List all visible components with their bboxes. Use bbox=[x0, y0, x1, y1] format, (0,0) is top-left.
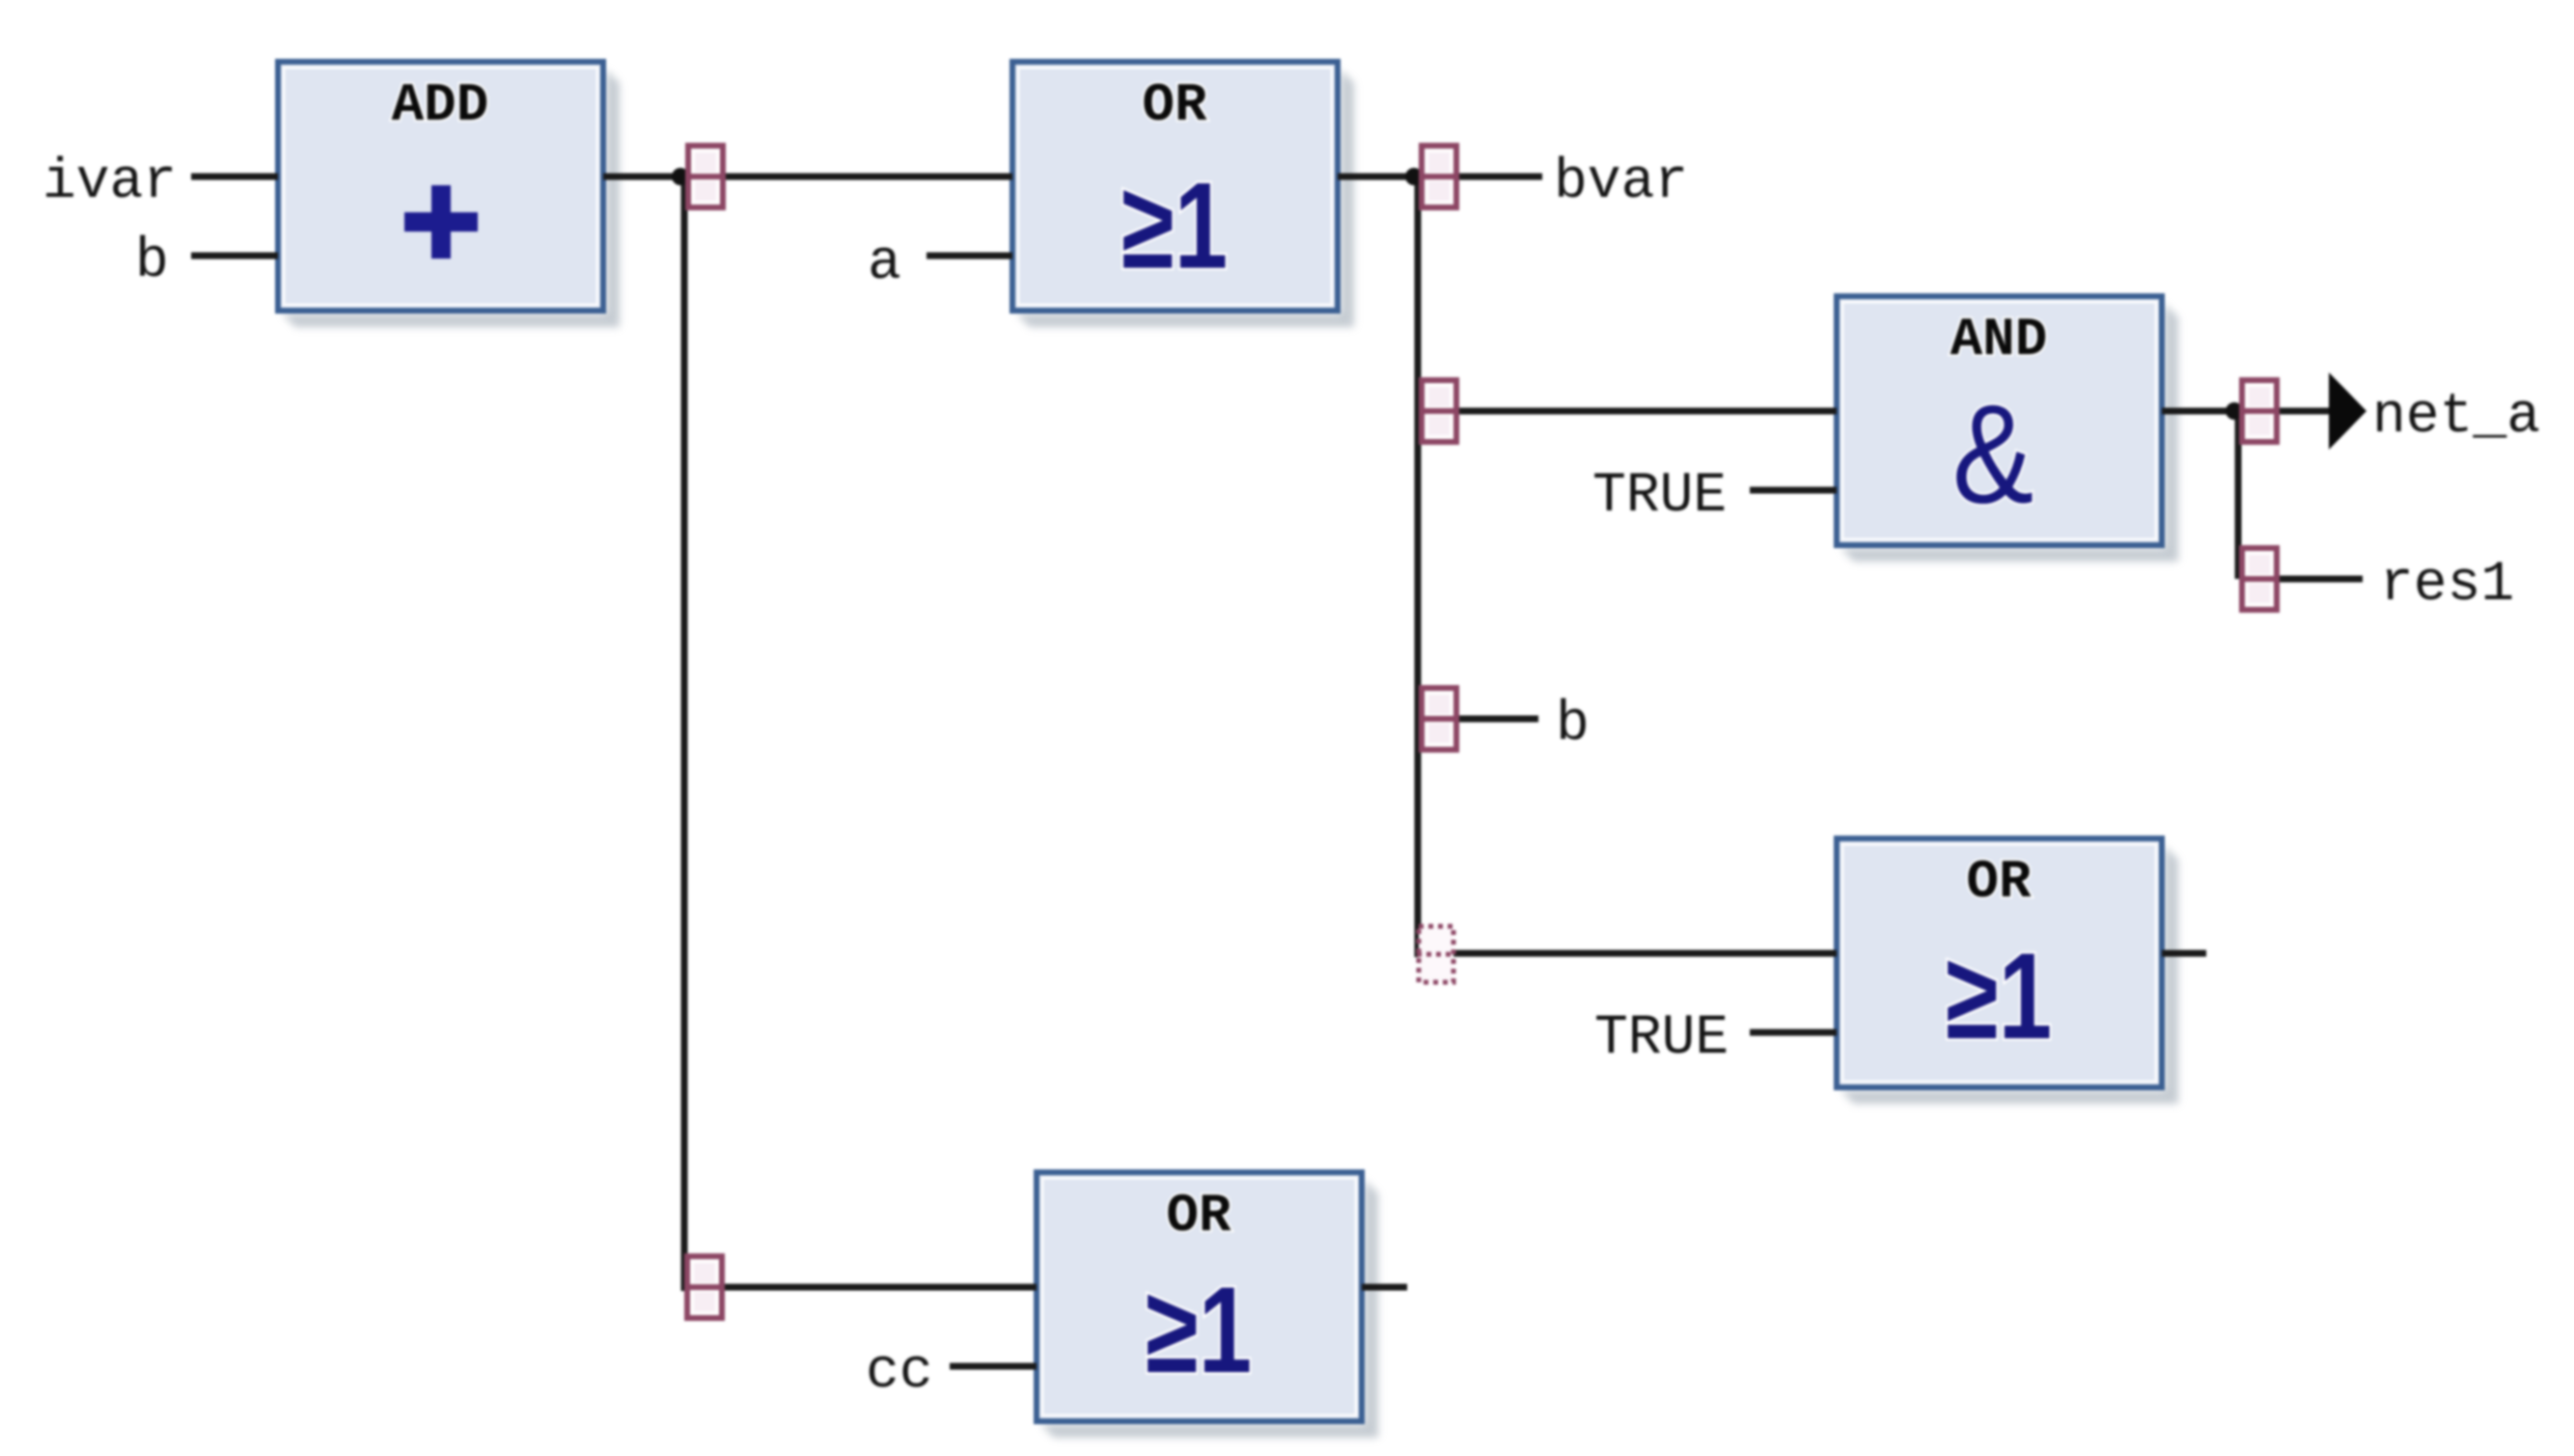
block AND bbox=[1837, 296, 2178, 562]
svg-text:net_a: net_a bbox=[2372, 386, 2540, 449]
connection marker at b branch bbox=[1419, 688, 1459, 750]
junction dot at AND output bbox=[2226, 402, 2243, 420]
block OR2 bbox=[1037, 1172, 1378, 1438]
wire TRUE to AND in2 bbox=[1750, 487, 1837, 494]
svg-text:res1: res1 bbox=[2380, 554, 2514, 617]
wire marker to OR2 in1 bbox=[722, 1284, 1037, 1291]
wire TRUE to OR3 in2 bbox=[1750, 1030, 1837, 1036]
svg-text:ADD: ADD bbox=[392, 74, 489, 136]
svg-text:≥1: ≥1 bbox=[1121, 158, 1228, 294]
svg-text:b: b bbox=[1556, 694, 1590, 756]
wire ivar to ADD in1 bbox=[191, 174, 278, 180]
svg-text:≥1: ≥1 bbox=[1946, 929, 2052, 1065]
connection marker at res1 branch bbox=[2239, 548, 2280, 610]
junction dot at OR1 output bbox=[1405, 168, 1423, 185]
wire a to OR1 in2 bbox=[927, 253, 1012, 260]
svg-text:&: & bbox=[1952, 374, 2034, 532]
connection marker at OR1 output bbox=[1419, 146, 1459, 207]
svg-text:≥1: ≥1 bbox=[1146, 1263, 1252, 1399]
connection marker at OR2 in1 bbox=[684, 1256, 725, 1318]
svg-text:AND: AND bbox=[1951, 309, 2048, 371]
wire vertical from OR1 out junction down to OR3 in1 bbox=[1415, 177, 1422, 957]
wire dashed marker to OR3 in1 bbox=[1448, 950, 1837, 957]
connection marker dashed at OR3 in1 bbox=[1417, 926, 1455, 982]
output arrow net_a bbox=[2329, 372, 2366, 450]
svg-text:OR: OR bbox=[1966, 851, 2032, 913]
svg-text:a: a bbox=[868, 233, 901, 295]
wire vertical from AND out junction down to res1 bbox=[2235, 411, 2242, 579]
wire OR3 out stub bbox=[2162, 950, 2206, 957]
wire AND out to net_a arrow bbox=[2162, 408, 2329, 415]
connection marker at ADD output bbox=[685, 146, 726, 207]
wire b to ADD in2 bbox=[191, 253, 278, 260]
block OR3 bbox=[1837, 838, 2178, 1104]
wire branch to AND in1 bbox=[1455, 408, 1837, 415]
wire ADD out to OR1 in1 bbox=[603, 174, 1012, 180]
svg-text:TRUE: TRUE bbox=[1594, 1007, 1729, 1070]
wire vertical from ADD out junction down to OR2 in1 bbox=[681, 177, 688, 1291]
svg-text:b: b bbox=[135, 231, 169, 293]
connection marker at AND output / net_a bbox=[2239, 380, 2280, 442]
wire cc to OR2 in2 bbox=[950, 1363, 1037, 1370]
svg-text:cc: cc bbox=[866, 1341, 933, 1404]
svg-text:TRUE: TRUE bbox=[1592, 465, 1727, 528]
svg-text:bvar: bvar bbox=[1554, 151, 1688, 214]
svg-text:ivar: ivar bbox=[42, 151, 177, 214]
wire OR1 out to bvar bbox=[1338, 174, 1542, 180]
svg-text:OR: OR bbox=[1142, 74, 1207, 136]
wire OR2 out stub bbox=[1362, 1284, 1407, 1291]
block OR1 bbox=[1012, 62, 1354, 327]
connection marker at AND in1 branch bbox=[1419, 380, 1459, 442]
wire branch to b label bbox=[1455, 716, 1538, 723]
junction dot at ADD output bbox=[672, 168, 689, 185]
wire res1 branch bbox=[2276, 576, 2363, 583]
svg-text:OR: OR bbox=[1166, 1185, 1232, 1247]
block ADD bbox=[278, 62, 620, 327]
